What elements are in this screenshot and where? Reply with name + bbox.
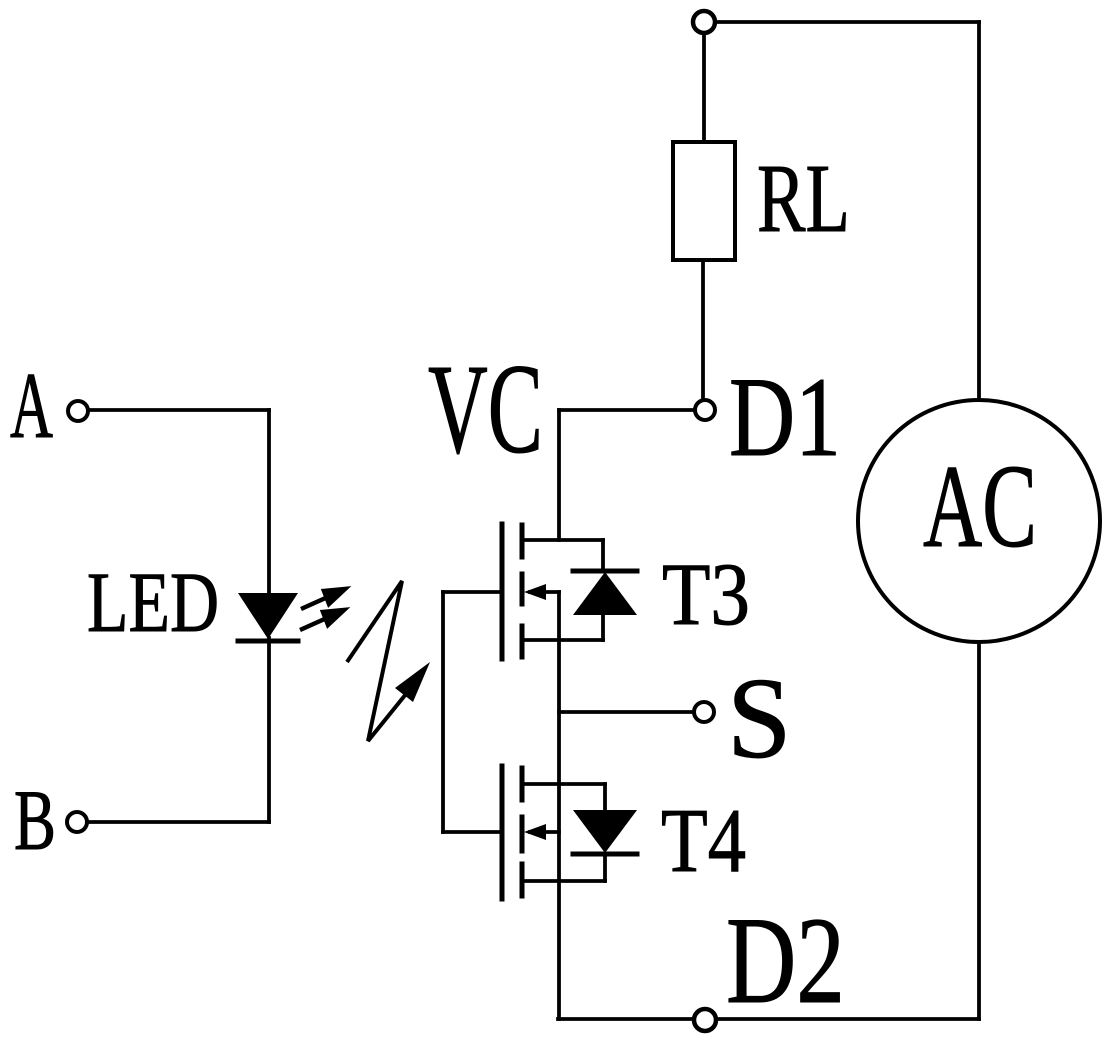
svg-text:D1: D1 bbox=[729, 355, 841, 480]
svg-text:LED: LED bbox=[87, 554, 219, 650]
svg-text:T4: T4 bbox=[661, 790, 746, 891]
svg-text:T3: T3 bbox=[662, 546, 750, 644]
svg-text:A: A bbox=[10, 354, 53, 458]
svg-text:AC: AC bbox=[923, 440, 1037, 572]
svg-text:RL: RL bbox=[757, 145, 850, 253]
svg-text:S: S bbox=[727, 655, 792, 783]
svg-text:D2: D2 bbox=[726, 892, 845, 1029]
svg-text:B: B bbox=[14, 772, 56, 868]
svg-text:VC: VC bbox=[428, 338, 543, 480]
